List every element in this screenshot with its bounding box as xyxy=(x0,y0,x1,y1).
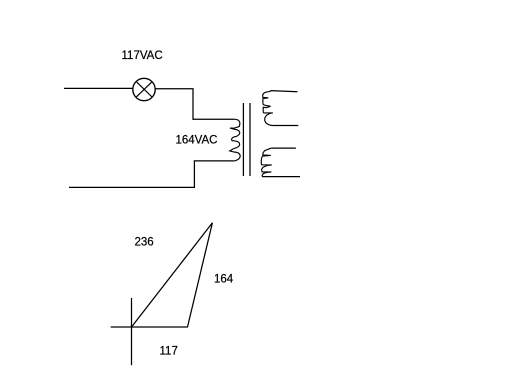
wire lamp to transformer primary top xyxy=(155,89,235,120)
phasor axis horizontal / triangle base xyxy=(111,326,188,328)
wire transformer primary bottom xyxy=(69,161,235,188)
secondary winding 1 bottom lead xyxy=(273,125,299,127)
secondary winding 2 coil xyxy=(261,148,272,176)
transformer core right line xyxy=(249,103,251,176)
transformer core left line xyxy=(242,103,244,176)
svg-text:236: 236 xyxy=(135,237,154,249)
secondary winding 1 top lead xyxy=(270,91,298,92)
svg-text:117VAC: 117VAC xyxy=(122,50,163,62)
secondary winding 1 coil xyxy=(263,92,273,126)
secondary winding 2 bottom lead xyxy=(262,176,300,178)
primary winding of transformer T1 xyxy=(230,119,240,161)
svg-text:117: 117 xyxy=(160,346,178,358)
phasor right side 164 xyxy=(188,223,213,327)
lamp L1 (circle with X) xyxy=(133,78,155,100)
wire top-left xyxy=(64,87,133,89)
phasor hypotenuse 236 xyxy=(132,223,213,327)
svg-text:164: 164 xyxy=(214,274,234,286)
phasor axis vertical xyxy=(131,298,133,365)
secondary winding 2 top lead xyxy=(271,147,296,149)
svg-text:164VAC: 164VAC xyxy=(176,135,218,147)
